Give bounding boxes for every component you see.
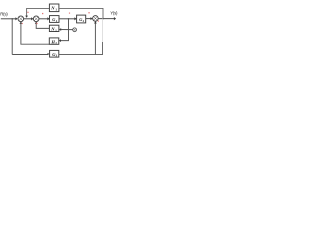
arrow into G1 — [47, 17, 49, 20]
block N1b feedback — [49, 25, 59, 31]
wire pickoff down from input to bottom row — [11, 19, 13, 55]
arrow into H2 right side — [59, 39, 61, 42]
block H2 — [49, 38, 59, 44]
wire top feedback right of N1 to corner above output — [59, 8, 103, 18]
arrow up into S2 bottom — [35, 22, 38, 24]
summing junction S1 — [18, 16, 24, 22]
arrow into G2 — [74, 17, 76, 20]
wire top feedback loop horizontal left of N1 — [27, 8, 50, 17]
arrow into S3 — [91, 17, 93, 20]
wire S1 to S2 — [24, 18, 32, 20]
arrow into S1 — [15, 17, 17, 20]
summing junction S3 — [93, 16, 99, 22]
sign + red above pickoff after G1 — [69, 13, 70, 14]
arrow down into main line between S1 and S2 — [25, 16, 28, 18]
block G2 — [77, 15, 86, 23]
node output pickoff dot — [102, 18, 104, 20]
node input pickoff dot — [11, 18, 13, 20]
sign + red near top loop arrow — [27, 12, 28, 13]
wire S2 to G1 — [39, 18, 48, 20]
arrow into N1b right side — [59, 28, 61, 31]
wire G1 to G2 — [59, 18, 75, 20]
summing junction S2 — [33, 16, 39, 22]
block N1 top — [49, 4, 59, 12]
wire G2 to S3 — [86, 18, 91, 20]
wire from takeoff circle to N1b — [61, 29, 73, 31]
wire pickoff after G1 down to H2 row — [61, 19, 69, 41]
arrow into G3 — [48, 53, 50, 55]
takeoff circle C4 — [73, 28, 77, 32]
sign + red before S3 — [88, 12, 89, 13]
arrow output — [114, 17, 116, 20]
arrow into S2 — [31, 17, 33, 20]
block G1 — [50, 16, 60, 23]
arrow up into S3 bottom — [94, 21, 97, 23]
wire bottom row to G3 — [12, 54, 48, 56]
wire faint outer right vertical continuing down — [102, 19, 104, 42]
wire S2 bottom vertical down to N1b row — [36, 22, 49, 29]
wire input R(s) to summing junction S1 — [1, 18, 16, 20]
svg-text:Y(s): Y(s) — [110, 10, 118, 15]
node pickoff dot after G1 — [68, 18, 70, 20]
sign + red below S3 — [98, 21, 99, 22]
arrow up into S1 bottom — [20, 22, 23, 24]
sign - red below S2 — [36, 23, 37, 24]
wire S3 to output Y(s) — [98, 18, 114, 20]
block G3 bottom — [50, 50, 59, 57]
sign - red below S1 — [22, 23, 23, 24]
svg-text:R(s): R(s) — [0, 11, 8, 16]
wire vertical up into S3 bottom — [94, 21, 96, 54]
sign + red above wire S2-G1 — [42, 13, 43, 14]
wire S1 bottom vertical down to H2 row — [21, 22, 50, 45]
wire G3 output along bottom row to right corner — [59, 54, 103, 56]
